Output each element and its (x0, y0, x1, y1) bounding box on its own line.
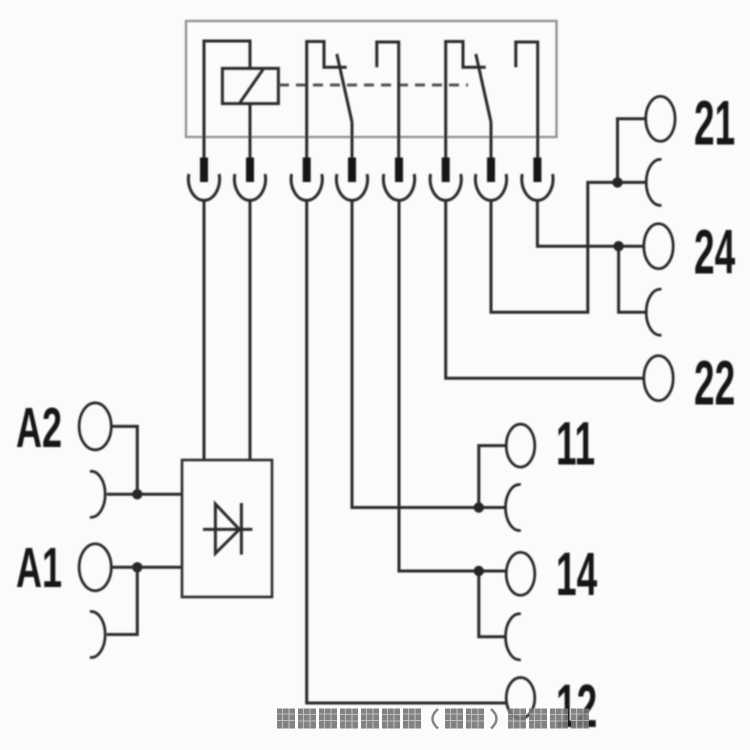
terminal circle 11 (506, 424, 535, 467)
svg-text:22: 22 (694, 347, 735, 418)
wire A1 circle to diode box (111, 566, 182, 569)
pin 8 (533, 158, 541, 183)
wire 1 to diode box (203, 201, 206, 461)
terminal socket A2 (90, 471, 105, 517)
contact 2 lever (476, 54, 491, 122)
socket 3 (291, 174, 322, 200)
diode D1 triangle (215, 504, 239, 553)
terminal circle 14 (506, 552, 535, 595)
terminal socket A1 (90, 612, 105, 658)
junction A2 (132, 489, 142, 499)
diode D1 cathode bar (240, 503, 243, 555)
wire A2 circle to junction (111, 426, 137, 494)
terminal circle A2 (79, 403, 111, 450)
contact 1 fixed NC hook (307, 42, 347, 159)
pin 2 (246, 158, 254, 183)
socket 1 (188, 174, 219, 200)
socket 7 (475, 174, 506, 200)
wire A1 junction to socket (107, 567, 138, 634)
terminal socket 21 (646, 159, 661, 205)
watermark company text (277, 709, 589, 729)
svg-text:11: 11 (556, 409, 595, 478)
terminal circle 24 (644, 224, 673, 269)
terminal circle 22 (644, 356, 673, 401)
pin 7 (487, 158, 495, 183)
junction A1 (132, 562, 142, 572)
contact 1 lever (337, 54, 352, 122)
svg-text:21: 21 (694, 87, 735, 158)
wire 4 to terminal 11 (352, 201, 505, 508)
pin 5 (395, 158, 403, 183)
wire 2 to diode box (249, 201, 252, 461)
diode D1 anode line (203, 528, 252, 531)
junction 21 (612, 177, 622, 187)
junction 11 (474, 502, 484, 512)
terminal circle 12 (506, 678, 535, 719)
socket 4 (336, 174, 367, 200)
svg-text:A1: A1 (16, 537, 62, 600)
wire 8 to terminal 24 (537, 201, 643, 247)
contact 1 common wire (351, 122, 354, 158)
contact 1 NO stub (377, 42, 399, 158)
terminal socket 11 (505, 485, 520, 531)
pin 3 (303, 158, 311, 183)
svg-text:A2: A2 (16, 397, 62, 460)
diode box U1 (182, 460, 272, 597)
socket 5 (383, 174, 414, 200)
socket 6 (430, 174, 461, 200)
wire 5 to terminal 14 (399, 201, 506, 572)
wire coil bottom lead (249, 104, 252, 158)
drop to socket 14 (479, 571, 505, 637)
pin 6 (442, 158, 450, 183)
terminal pins row (200, 158, 541, 183)
wire 3 to terminal 12 (307, 201, 507, 704)
coil K1 (222, 68, 278, 103)
drop to socket 24 (619, 246, 646, 312)
svg-text:14: 14 (556, 539, 597, 608)
socket 2 (234, 174, 265, 200)
riser to circle 21 (618, 119, 646, 183)
riser to circle 11 (479, 446, 507, 508)
terminal socket 24 (646, 289, 661, 335)
wire 6 to terminal 22 (446, 201, 644, 379)
contact 2 common wire (490, 122, 493, 158)
pin 1 (200, 158, 208, 183)
relay housing box (186, 21, 557, 137)
contact 2 NO stub (516, 42, 538, 158)
terminal circle 21 (646, 96, 675, 141)
wire A2 socket to diode box (107, 493, 182, 496)
junction 24 (613, 241, 623, 251)
wire 7 to terminal 21 (491, 182, 645, 312)
pin 4 (348, 158, 356, 183)
dashed actuation link (279, 84, 468, 87)
socket 8 (522, 174, 553, 200)
coil diagonal (240, 70, 263, 103)
terminal circle A1 (79, 544, 111, 591)
terminal socket 14 (505, 614, 520, 660)
svg-text:12: 12 (556, 671, 597, 740)
wire coil top hook (204, 41, 250, 158)
svg-text:24: 24 (694, 216, 735, 287)
junction 14 (474, 566, 484, 576)
contact 2 fixed NC hook (446, 42, 486, 159)
